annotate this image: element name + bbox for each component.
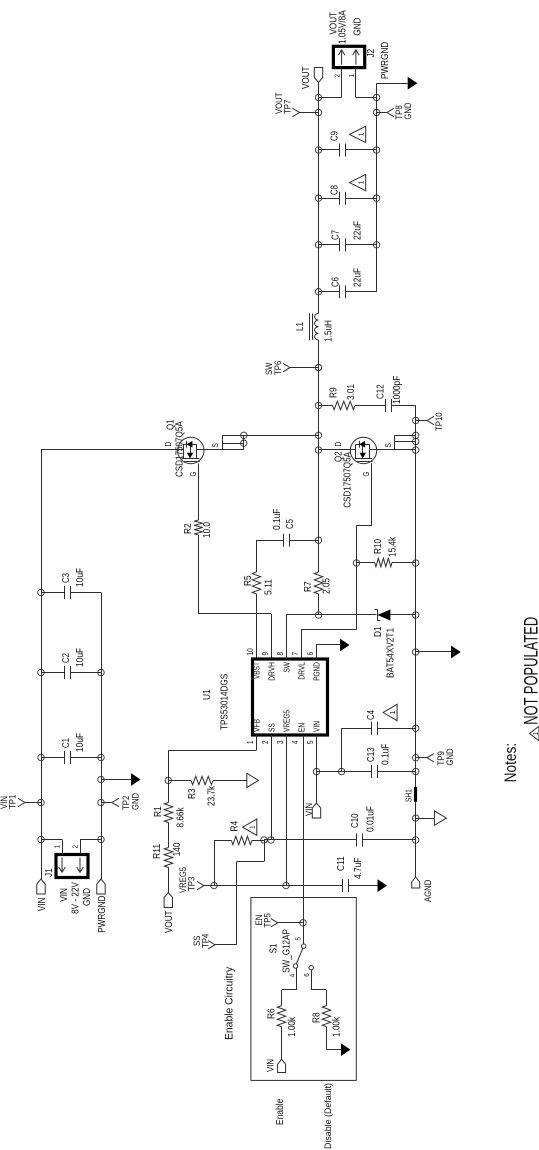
svg-text:R6: R6	[267, 1008, 278, 1019]
NP triangle C4	[383, 704, 397, 720]
wire output GND bus	[376, 83, 378, 292]
svg-text:C8: C8	[330, 185, 341, 195]
node Q2 src bus junction 2	[413, 438, 419, 444]
node J2.1 junction	[373, 94, 379, 100]
node C4 top junction	[338, 768, 344, 774]
svg-text:L1: L1	[295, 322, 306, 331]
wire J1 pin 1	[62, 840, 64, 855]
diode D1	[377, 610, 379, 621]
svg-text:15.4k: 15.4k	[388, 536, 399, 557]
wire AGND bus	[415, 802, 417, 877]
svg-text:2: 2	[71, 845, 80, 848]
capacitor C11	[342, 879, 344, 892]
resistor R11	[164, 848, 172, 868]
capacitor C3	[41, 592, 65, 594]
wire VOUT rail	[318, 83, 320, 292]
node C13 bus junction	[413, 768, 419, 774]
svg-text:1: 1	[533, 732, 539, 735]
wire SS vertical	[264, 839, 357, 841]
wire SS pin 2	[271, 735, 273, 840]
node Q2 src bus junction 3	[413, 432, 419, 438]
transistor Q2	[350, 437, 376, 463]
capacitor C13	[317, 771, 372, 773]
resistor R2	[198, 463, 200, 520]
svg-text:C4: C4	[366, 710, 377, 720]
svg-text:TP4: TP4	[201, 934, 212, 948]
switch S1	[302, 944, 306, 948]
svg-text:6: 6	[306, 651, 315, 655]
svg-text:VIN: VIN	[304, 803, 315, 816]
svg-text:C6: C6	[331, 277, 342, 287]
test point TP8	[373, 109, 379, 115]
node Q1 source junction 2	[241, 432, 247, 438]
ground C11 PGND arrow	[378, 879, 388, 892]
node C10 bus junction	[413, 837, 419, 843]
wire Q1 source ladder mid	[222, 443, 244, 445]
svg-text:G: G	[362, 472, 371, 477]
svg-text:1: 1	[388, 711, 397, 714]
wire Q2 source ladder rung	[394, 435, 396, 450]
svg-text:1: 1	[246, 740, 255, 744]
wire SW/D1 vertical	[319, 614, 377, 616]
svg-text:1.05V/8A: 1.05V/8A	[338, 10, 349, 44]
svg-text:SH1: SH1	[405, 789, 414, 802]
svg-text:2.05: 2.05	[322, 578, 333, 594]
svg-text:GND: GND	[131, 793, 142, 810]
svg-text:1000pF: 1000pF	[392, 376, 403, 404]
svg-text:1: 1	[347, 74, 356, 77]
svg-text:10.0: 10.0	[202, 522, 213, 538]
connector J1	[56, 855, 88, 878]
capacitor C12	[385, 399, 387, 412]
svg-text:4: 4	[291, 740, 300, 744]
wire VIN pin 5	[316, 735, 318, 803]
svg-text:TP6: TP6	[273, 361, 284, 375]
wire S1 pin 6 to R8	[311, 970, 313, 990]
svg-text:DRVH: DRVH	[267, 662, 276, 681]
svg-text:2: 2	[333, 74, 342, 77]
svg-text:2: 2	[261, 740, 270, 744]
net flag VIN (enable)	[278, 1059, 286, 1072]
node Q1 source junction 1	[241, 440, 247, 446]
wire DRVL pin 7	[301, 630, 303, 659]
svg-text:C9: C9	[330, 131, 341, 141]
svg-text:VIN: VIN	[37, 898, 48, 912]
svg-text:5.11: 5.11	[264, 579, 275, 595]
svg-text:SW_G12AP: SW_G12AP	[282, 929, 293, 973]
resistor R3	[168, 780, 191, 782]
svg-text:22uF: 22uF	[353, 221, 364, 240]
svg-text:S: S	[384, 443, 393, 447]
svg-text:PWRGND: PWRGND	[380, 42, 391, 79]
resistor R5	[256, 594, 258, 659]
test point TP9	[413, 755, 419, 761]
svg-text:TP1: TP1	[8, 795, 19, 809]
svg-text:R10: R10	[373, 539, 384, 554]
svg-text:R2: R2	[183, 523, 194, 534]
capacitor C1	[41, 757, 65, 759]
resistor R8	[322, 1006, 330, 1027]
svg-text:4.7uF: 4.7uF	[353, 858, 364, 879]
test point TP3	[197, 881, 204, 889]
svg-text:J1: J1	[44, 868, 55, 877]
wire Q1 source ladder rung B	[243, 435, 245, 450]
capacitor C4	[341, 728, 343, 771]
net flag VIN (input)	[37, 879, 45, 894]
wire J2 pin 1	[355, 68, 357, 98]
svg-text:23.7k: 23.7k	[207, 785, 218, 806]
wire SW to Q2 drain	[319, 449, 356, 451]
svg-text:D1: D1	[373, 626, 384, 637]
wire DRVH vertical	[198, 613, 271, 615]
svg-text:S: S	[211, 443, 220, 447]
node SW-Q1src junction	[315, 432, 321, 438]
svg-text:C5: C5	[285, 519, 296, 529]
resistor R4	[214, 840, 231, 842]
svg-text:1: 1	[53, 845, 62, 848]
svg-text:VIN: VIN	[312, 721, 321, 732]
test point TP5	[278, 922, 303, 924]
svg-text:C2: C2	[61, 653, 72, 663]
svg-text:C11: C11	[336, 856, 347, 871]
capacitor C10	[356, 834, 358, 847]
node SW-C5 junction	[315, 537, 321, 543]
NP triangle C8	[350, 174, 366, 190]
wire SS-TP4 link	[264, 840, 266, 862]
svg-text:3.01: 3.01	[346, 384, 357, 400]
node SW rail junction	[315, 612, 321, 618]
svg-text:J2: J2	[366, 48, 377, 57]
node SW-TP6 junction	[315, 364, 321, 370]
ground pin6 PGND arrow	[316, 645, 318, 659]
node VREG5-C11 junction	[283, 882, 289, 888]
wire Q1 source ladder rung A	[222, 435, 224, 450]
svg-text:4: 4	[288, 974, 297, 977]
svg-text:C1: C1	[61, 738, 72, 748]
svg-text:Enable Circuitry: Enable Circuitry	[224, 966, 236, 1040]
node C4 bus junction	[413, 725, 419, 731]
capacitor C5	[256, 540, 283, 542]
svg-text:EN: EN	[297, 723, 306, 732]
svg-text:R1: R1	[153, 806, 164, 817]
node SW-R9 junction	[315, 402, 321, 408]
svg-text:140: 140	[172, 842, 183, 856]
svg-text:Notes:: Notes:	[502, 743, 520, 783]
inductor L1	[318, 340, 320, 368]
test point TP4	[208, 941, 215, 949]
resistor R9	[319, 405, 333, 407]
wire VFB pin 1	[256, 735, 258, 751]
ground PWRGND arrow (input)	[98, 776, 104, 782]
net flag VOUT (feedback)	[164, 893, 172, 908]
svg-text:1: 1	[248, 826, 257, 829]
svg-text:TP3: TP3	[187, 877, 198, 891]
svg-text:R8: R8	[312, 1012, 323, 1023]
wire Q2 source ladder mid	[394, 441, 415, 443]
capacitor C2	[41, 672, 65, 674]
svg-text:R7: R7	[303, 581, 314, 592]
wire J2 pin 2	[341, 68, 343, 98]
node TP3-R4 junction	[211, 882, 217, 888]
capacitor C7	[319, 244, 340, 246]
svg-text:0.1uF: 0.1uF	[272, 509, 283, 530]
svg-text:10: 10	[246, 648, 255, 656]
ground AGND triangle (bus)	[413, 815, 419, 821]
wire bus to C12	[391, 405, 416, 407]
wire Q2 gate	[371, 463, 373, 526]
node SS junction 2	[268, 837, 274, 843]
node J2.2 junction	[315, 94, 321, 100]
node D1 bus junction	[413, 612, 419, 618]
svg-text:1.00k: 1.00k	[287, 1016, 298, 1037]
IC U1 box	[253, 659, 328, 735]
wire Q1 source to SW	[222, 435, 318, 437]
node SS junction 1	[261, 837, 267, 843]
wire DRVH to pin 9	[271, 614, 273, 659]
net flag PWRGND (input)	[97, 879, 105, 894]
svg-text:GND: GND	[353, 18, 364, 36]
wire S1 pin 4 to R6	[296, 968, 298, 991]
transistor Q1	[178, 437, 204, 463]
svg-text:GND: GND	[82, 888, 93, 906]
ground R8 arrow	[326, 1049, 341, 1051]
svg-text:TP10: TP10	[434, 412, 445, 431]
svg-text:8.66k: 8.66k	[176, 807, 187, 828]
svg-text:TPS53014DGS: TPS53014DGS	[220, 674, 231, 730]
svg-text:R9: R9	[329, 387, 340, 398]
svg-text:SW: SW	[282, 662, 291, 673]
svg-text:C3: C3	[61, 573, 72, 583]
svg-text:Disable (Default): Disable (Default)	[323, 1083, 334, 1149]
test point TP7	[315, 109, 321, 115]
resistor R1	[164, 803, 172, 823]
wire Q1 source	[197, 449, 244, 451]
test point TP2	[98, 799, 104, 805]
svg-text:NOT POPULATED: NOT POPULATED	[521, 617, 539, 725]
svg-text:C12: C12	[376, 384, 387, 399]
node J1.1-VIN junction	[38, 836, 44, 842]
svg-text:R5: R5	[243, 575, 254, 586]
svg-text:VBST: VBST	[252, 662, 261, 679]
wire VREG5 pin 3	[286, 735, 288, 886]
NP triangle R4	[243, 819, 257, 835]
resistor R7	[314, 572, 322, 594]
svg-text:TP7: TP7	[283, 100, 294, 114]
wire TP3 vertical	[214, 885, 343, 887]
svg-text:7: 7	[291, 651, 300, 655]
net flag VIN (U1)	[312, 803, 320, 818]
enable circuitry box	[251, 898, 356, 1081]
svg-text:VIN: VIN	[266, 1059, 277, 1072]
svg-text:10uF: 10uF	[75, 648, 86, 667]
wire EN pin 4	[303, 735, 305, 944]
svg-text:C13: C13	[366, 747, 377, 762]
svg-text:22uF: 22uF	[353, 268, 364, 287]
ground PGND arrow (bus)	[413, 649, 419, 655]
NP triangle C9	[350, 126, 366, 142]
svg-text:GND: GND	[403, 102, 414, 119]
svg-text:8V - 22V: 8V - 22V	[71, 882, 82, 914]
NP triangle note	[530, 726, 539, 741]
svg-text:D: D	[334, 442, 343, 447]
wire Q2 source ladder right	[394, 435, 415, 437]
svg-text:1.5uH: 1.5uH	[324, 320, 335, 342]
svg-text:R11: R11	[152, 844, 163, 859]
node VIN-C13 junction	[313, 768, 319, 774]
wire FB divider rail	[168, 868, 170, 893]
svg-text:CSD17507Q5A: CSD17507Q5A	[343, 452, 354, 508]
ground AGND triangle (R3)	[247, 773, 259, 787]
svg-text:SS: SS	[267, 723, 276, 732]
svg-text:9: 9	[261, 651, 270, 655]
capacitor C8	[319, 198, 340, 200]
svg-text:Enable: Enable	[275, 1098, 286, 1125]
capacitor C6	[319, 291, 340, 293]
svg-text:G: G	[189, 472, 198, 477]
svg-text:PGND: PGND	[312, 662, 321, 681]
svg-text:10uF: 10uF	[75, 568, 86, 587]
svg-text:C7: C7	[331, 230, 342, 240]
wire Q2 source	[369, 449, 415, 451]
wire R4 branch	[214, 840, 216, 885]
wire J1 pin 2	[80, 840, 82, 855]
svg-text:1: 1	[357, 133, 366, 136]
svg-text:1: 1	[357, 181, 366, 184]
svg-text:S1: S1	[269, 943, 280, 953]
node FB junction	[165, 777, 171, 783]
svg-text:R3: R3	[187, 788, 198, 799]
svg-text:0.1uF: 0.1uF	[381, 744, 392, 765]
svg-text:DRVL: DRVL	[297, 662, 306, 680]
test point TP1	[38, 799, 44, 805]
node EN-TP5 junction	[300, 920, 306, 926]
svg-text:VOUT: VOUT	[301, 67, 312, 90]
svg-text:VREG5: VREG5	[282, 710, 291, 732]
svg-text:0.01uF: 0.01uF	[366, 806, 377, 832]
svg-text:TP5: TP5	[263, 913, 274, 927]
wire SW pin 8	[286, 615, 288, 659]
svg-text:D: D	[164, 442, 173, 447]
svg-text:8: 8	[276, 651, 285, 655]
svg-text:R4: R4	[230, 821, 241, 832]
resistor R10	[357, 562, 375, 564]
node L1-C6 junction	[315, 289, 321, 295]
svg-text:10uF: 10uF	[75, 733, 86, 752]
wire VIN rail to Q1 drain	[41, 449, 183, 451]
svg-text:AGND: AGND	[423, 880, 434, 902]
svg-text:BAT54XV2T1: BAT54XV2T1	[386, 628, 397, 678]
svg-text:6: 6	[302, 973, 311, 976]
svg-text:VFB: VFB	[252, 719, 261, 732]
wire SW rail	[318, 594, 320, 615]
net flag VOUT (output)	[314, 68, 322, 83]
capacitor C9	[319, 149, 340, 151]
test point TP10	[413, 417, 419, 423]
wire GND rail (input)	[101, 593, 103, 880]
svg-text:3: 3	[276, 740, 285, 744]
wire VIN rail	[41, 450, 43, 879]
svg-text:VOUT: VOUT	[164, 911, 175, 934]
connector J2	[333, 46, 364, 67]
test point TP6	[315, 364, 321, 370]
shunt SH1	[414, 787, 417, 802]
svg-text:5: 5	[294, 937, 303, 940]
svg-text:C10: C10	[350, 813, 361, 828]
svg-text:GND: GND	[445, 748, 456, 765]
svg-text:VIN: VIN	[59, 888, 70, 902]
svg-text:U1: U1	[202, 689, 213, 700]
svg-text:5: 5	[306, 740, 315, 744]
net flag AGND	[412, 877, 420, 888]
node Q2 src bus junction 1	[413, 447, 419, 453]
svg-text:PWRGND: PWRGND	[97, 896, 108, 933]
node SW-Q2 junction	[315, 447, 321, 453]
svg-text:1.00k: 1.00k	[332, 1016, 343, 1037]
node R10 bus junction	[413, 560, 419, 566]
ground PWRGND arrow (output)	[377, 83, 408, 85]
node DRVL-R10 junction	[353, 560, 359, 566]
resistor R6	[277, 1006, 285, 1027]
node J1.2-GND junction	[98, 836, 104, 842]
